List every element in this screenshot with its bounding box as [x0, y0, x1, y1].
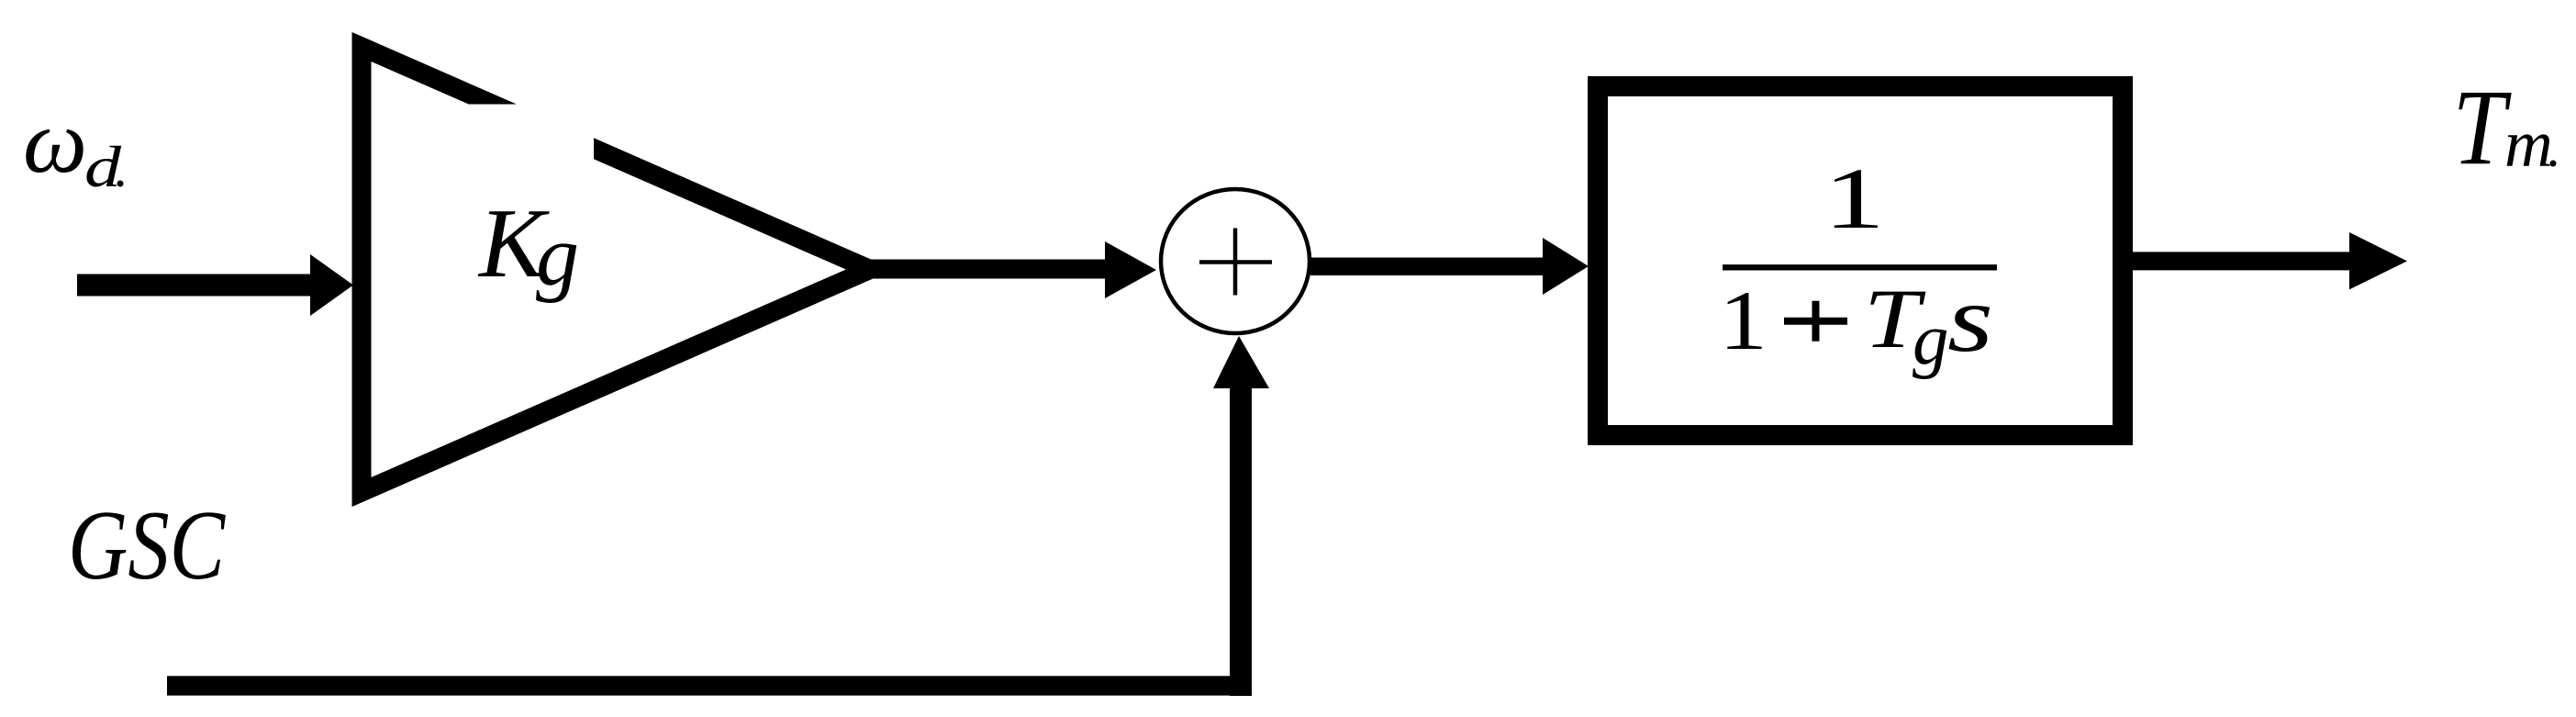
svg-text:m: m — [2504, 106, 2553, 181]
svg-text:g: g — [1912, 300, 1949, 380]
svg-text:T: T — [2453, 67, 2513, 187]
svg-text:g: g — [536, 208, 579, 304]
svg-text:1: 1 — [1823, 150, 1885, 247]
svg-text:GSC: GSC — [68, 491, 227, 600]
svg-text:s: s — [1947, 266, 1993, 372]
svg-text:d: d — [84, 134, 122, 199]
svg-text:ω: ω — [23, 92, 87, 192]
svg-text:1: 1 — [1719, 274, 1768, 367]
